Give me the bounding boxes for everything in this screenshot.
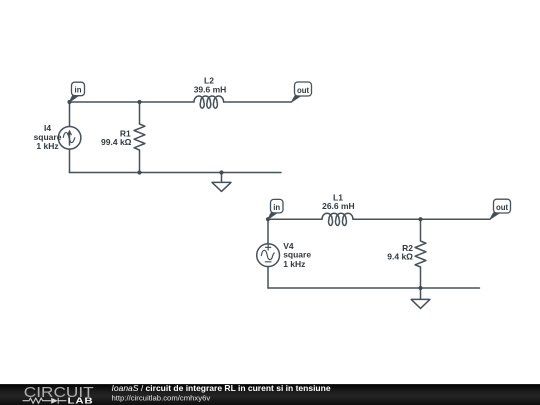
wire: C1 top rail from L2 right to flag out [224, 101, 292, 103]
flag in (circuit 1) [70, 82, 85, 102]
footer: title line [112, 383, 331, 393]
ground GND1 [212, 173, 231, 192]
label: flag out text (circuit 2) [496, 203, 509, 212]
svg-text:http://circuitlab.com/cmhxy6v: http://circuitlab.com/cmhxy6v [112, 394, 211, 403]
node: junction dot at in corner [67, 100, 71, 104]
wire: C2 bottom rail [268, 287, 480, 289]
node: junction dot R1 top [137, 100, 141, 104]
footer bar [0, 384, 540, 405]
label: L1 name/value [322, 193, 355, 211]
svg-text:9.4 kΩ: 9.4 kΩ [387, 252, 413, 262]
current source I4 [58, 127, 81, 150]
svg-text:out: out [297, 86, 310, 95]
svg-text:out: out [496, 203, 509, 212]
label: R1 name/value [101, 128, 132, 147]
node: junction dot ground GND1 [219, 170, 223, 174]
svg-text:1 kHz: 1 kHz [36, 141, 58, 151]
node: junction dot at C2 in corner [266, 217, 270, 221]
wire: C1 left vertical from node in down to I4 top [69, 102, 71, 127]
ground GND2 [411, 288, 430, 308]
svg-text:LAB: LAB [68, 397, 94, 405]
flag in (circuit 2) [268, 199, 283, 219]
svg-text:1 kHz: 1 kHz [283, 259, 305, 269]
wire: C2 top rail from node in to L1 left [268, 218, 322, 220]
wire: C2 top rail from L1 right to flag out [353, 218, 490, 220]
footer: logo text LAB [68, 397, 94, 405]
node: junction dot R2 bottom / ground [418, 286, 422, 290]
resistor R1 [134, 102, 145, 173]
label: flag in text (circuit 1) [75, 86, 82, 95]
wire: C1 top rail from node in to L2 left [70, 101, 194, 103]
wire: C2 left vertical from node in down to V4 top [267, 219, 269, 244]
svg-text:26.6 mH: 26.6 mH [322, 201, 355, 211]
flag out (circuit 1) [292, 82, 312, 102]
voltage source V4 [257, 244, 280, 267]
svg-text:99.4 kΩ: 99.4 kΩ [101, 137, 132, 147]
node: junction dot R2 top [418, 217, 422, 221]
label: R2 name/value [387, 243, 413, 262]
footer: CircuitLab logo text CIRCUIT [24, 385, 94, 400]
inductor L1 [322, 213, 353, 225]
footer: logo resistor zigzag + diode underline [23, 398, 67, 404]
wire: C1 left vertical from I4 bottom to bottom rail [69, 149, 71, 172]
footer: url line [112, 394, 211, 403]
label: L2 name/value [194, 76, 227, 95]
svg-text:IoanaS / circuit de integrare: IoanaS / circuit de integrare RL in cure… [112, 383, 331, 393]
svg-text:in: in [75, 86, 82, 95]
node: junction dot R1 bottom [137, 170, 141, 174]
inductor L2 [194, 96, 224, 108]
label: I4 name/value [34, 123, 62, 151]
label: V4 name/value [283, 241, 311, 269]
wire: C1 bottom rail [70, 172, 282, 174]
resistor R2 [415, 219, 426, 288]
svg-text:39.6 mH: 39.6 mH [194, 85, 227, 95]
flag out (circuit 2) [490, 199, 511, 219]
label: flag in text (circuit 2) [273, 203, 280, 212]
wire: C2 left vertical from V4 bottom to bottom rail [267, 267, 269, 288]
svg-text:in: in [273, 203, 280, 212]
label: flag out text (circuit 1) [297, 86, 310, 95]
